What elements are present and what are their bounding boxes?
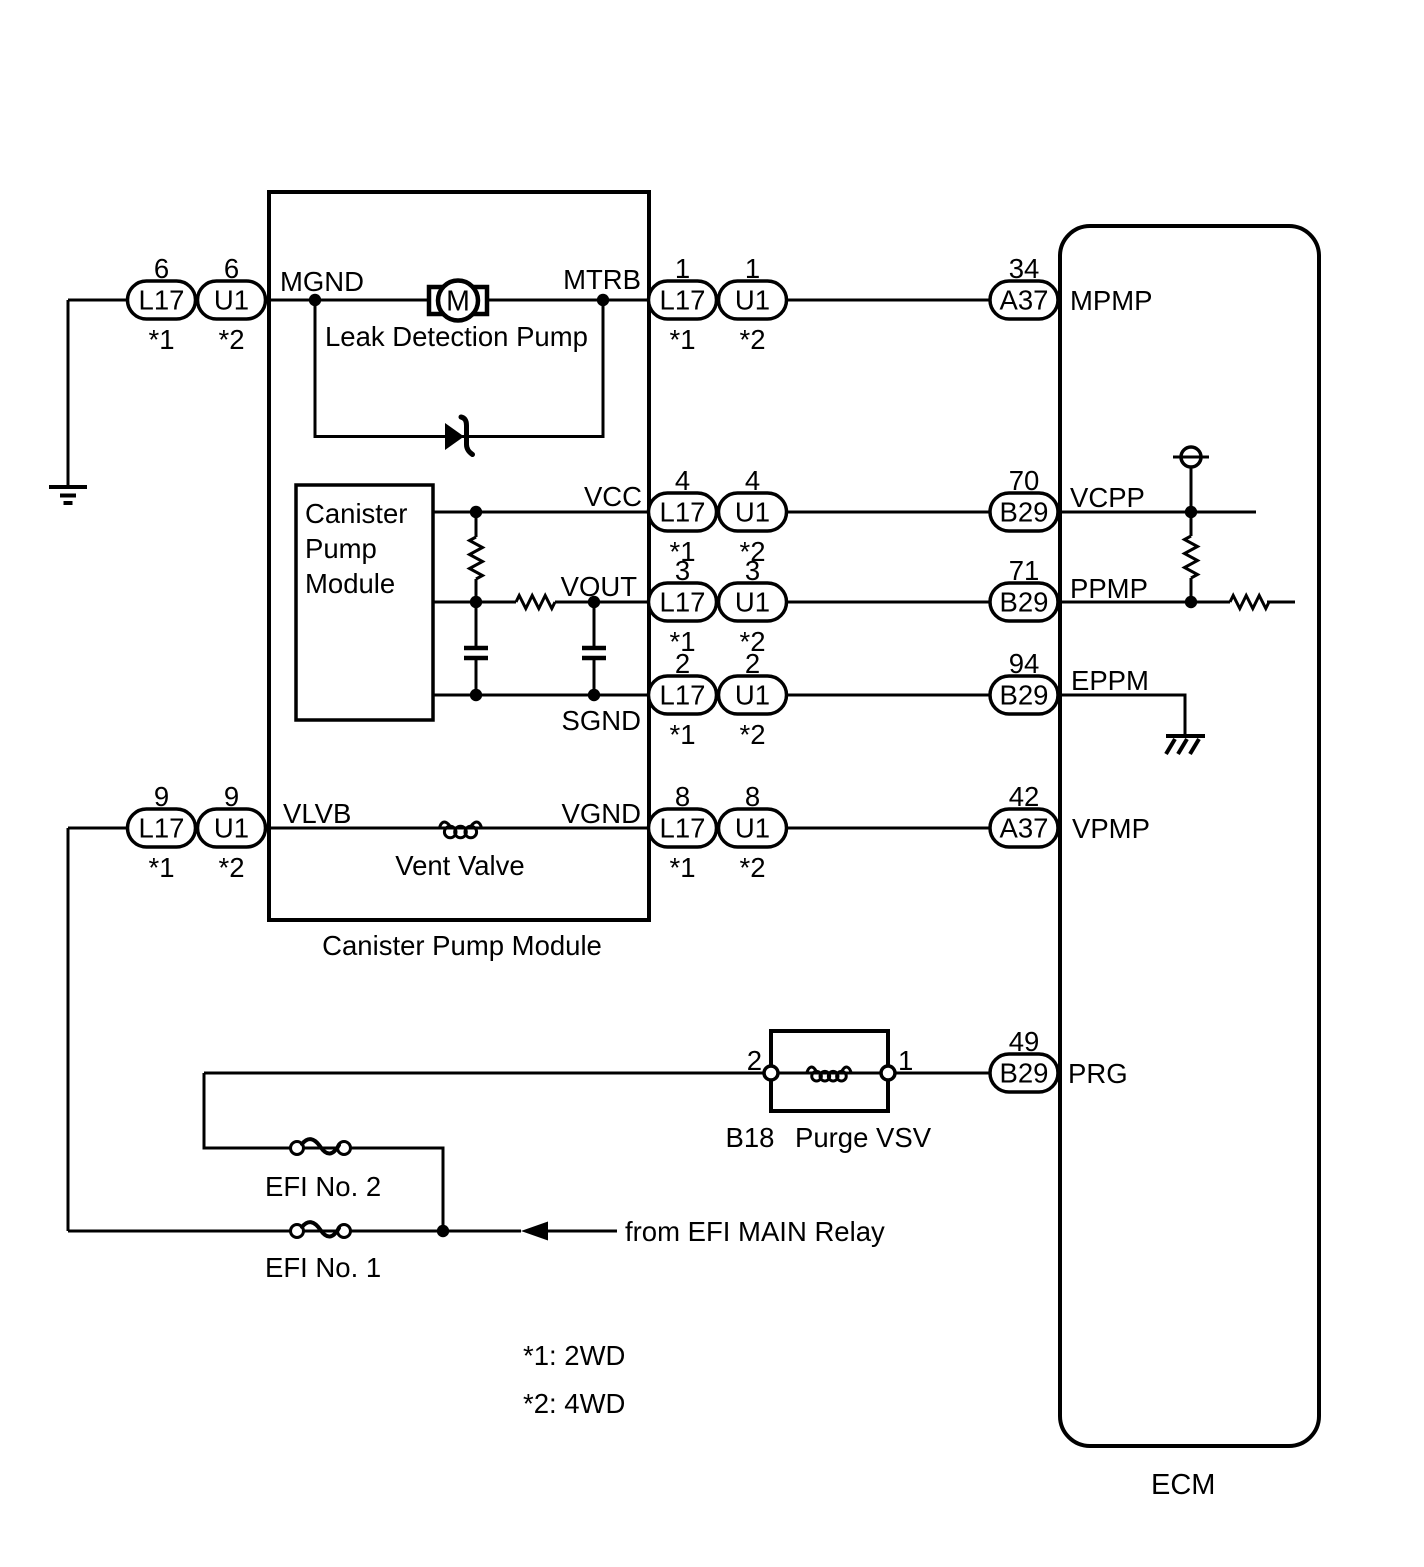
- svg-text:*2: *2: [219, 324, 245, 355]
- svg-text:U1: U1: [214, 285, 249, 316]
- svg-text:U1: U1: [735, 285, 770, 316]
- svg-text:*1: *1: [149, 324, 175, 355]
- svg-text:from EFI MAIN Relay: from EFI MAIN Relay: [625, 1216, 885, 1247]
- svg-text:9: 9: [224, 781, 239, 812]
- svg-text:VCPP: VCPP: [1070, 482, 1145, 513]
- svg-text:*2: 4WD: *2: 4WD: [523, 1388, 625, 1419]
- svg-text:Pump: Pump: [305, 533, 377, 564]
- svg-text:L17: L17: [660, 587, 706, 618]
- svg-text:94: 94: [1009, 648, 1040, 679]
- svg-text:Module: Module: [305, 568, 395, 599]
- svg-text:49: 49: [1009, 1026, 1040, 1057]
- svg-text:L17: L17: [660, 680, 706, 711]
- svg-text:VCC: VCC: [584, 481, 642, 512]
- svg-text:9: 9: [154, 781, 169, 812]
- svg-text:1: 1: [898, 1045, 913, 1076]
- svg-text:U1: U1: [735, 497, 770, 528]
- svg-text:MTRB: MTRB: [563, 264, 641, 295]
- svg-text:Canister Pump Module: Canister Pump Module: [322, 930, 602, 961]
- svg-text:1: 1: [745, 253, 760, 284]
- svg-text:*1: *1: [149, 852, 175, 883]
- svg-text:L17: L17: [139, 813, 185, 844]
- svg-text:34: 34: [1009, 253, 1040, 284]
- svg-text:EPPM: EPPM: [1071, 665, 1149, 696]
- svg-text:*1: *1: [670, 324, 696, 355]
- svg-text:VOUT: VOUT: [561, 571, 638, 602]
- svg-text:*2: *2: [219, 852, 245, 883]
- svg-text:U1: U1: [735, 813, 770, 844]
- svg-text:2: 2: [747, 1045, 762, 1076]
- svg-text:VPMP: VPMP: [1072, 813, 1150, 844]
- svg-text:B18: B18: [726, 1122, 775, 1153]
- svg-text:8: 8: [745, 781, 760, 812]
- svg-text:3: 3: [745, 555, 760, 586]
- svg-text:VLVB: VLVB: [283, 798, 351, 829]
- svg-text:B29: B29: [1000, 587, 1049, 618]
- svg-text:A37: A37: [1000, 285, 1049, 316]
- svg-text:*1: *1: [670, 852, 696, 883]
- svg-text:B29: B29: [1000, 497, 1049, 528]
- svg-text:6: 6: [154, 253, 169, 284]
- svg-text:3: 3: [675, 555, 690, 586]
- svg-text:U1: U1: [735, 587, 770, 618]
- svg-text:8: 8: [675, 781, 690, 812]
- svg-text:71: 71: [1009, 555, 1040, 586]
- svg-text:L17: L17: [660, 813, 706, 844]
- svg-text:MGND: MGND: [280, 266, 364, 297]
- svg-text:EFI No. 2: EFI No. 2: [265, 1171, 381, 1202]
- svg-text:*1: *1: [670, 719, 696, 750]
- svg-text:2: 2: [675, 648, 690, 679]
- svg-text:B29: B29: [1000, 680, 1049, 711]
- svg-text:42: 42: [1009, 781, 1040, 812]
- svg-text:M: M: [446, 286, 470, 318]
- svg-text:B29: B29: [1000, 1058, 1049, 1089]
- svg-text:SGND: SGND: [562, 705, 641, 736]
- svg-text:A37: A37: [1000, 813, 1049, 844]
- svg-text:1: 1: [675, 253, 690, 284]
- svg-text:L17: L17: [660, 497, 706, 528]
- svg-text:Vent Valve: Vent Valve: [395, 850, 524, 881]
- svg-text:MPMP: MPMP: [1070, 285, 1153, 316]
- svg-text:70: 70: [1009, 465, 1040, 496]
- svg-text:EFI No. 1: EFI No. 1: [265, 1252, 381, 1283]
- svg-text:PRG: PRG: [1068, 1058, 1128, 1089]
- svg-text:L17: L17: [139, 285, 185, 316]
- svg-text:*2: *2: [740, 852, 766, 883]
- svg-text:*2: *2: [740, 719, 766, 750]
- svg-text:L17: L17: [660, 285, 706, 316]
- svg-text:PPMP: PPMP: [1070, 573, 1148, 604]
- svg-text:4: 4: [745, 465, 760, 496]
- svg-text:Canister: Canister: [305, 498, 407, 529]
- svg-text:Leak Detection Pump: Leak Detection Pump: [325, 321, 588, 352]
- svg-text:*2: *2: [740, 324, 766, 355]
- svg-text:4: 4: [675, 465, 690, 496]
- svg-text:Purge VSV: Purge VSV: [795, 1122, 932, 1153]
- svg-text:ECM: ECM: [1151, 1469, 1215, 1501]
- svg-text:2: 2: [745, 648, 760, 679]
- svg-text:*1: 2WD: *1: 2WD: [523, 1340, 625, 1371]
- svg-text:U1: U1: [214, 813, 249, 844]
- svg-text:6: 6: [224, 253, 239, 284]
- svg-text:VGND: VGND: [562, 798, 641, 829]
- svg-text:U1: U1: [735, 680, 770, 711]
